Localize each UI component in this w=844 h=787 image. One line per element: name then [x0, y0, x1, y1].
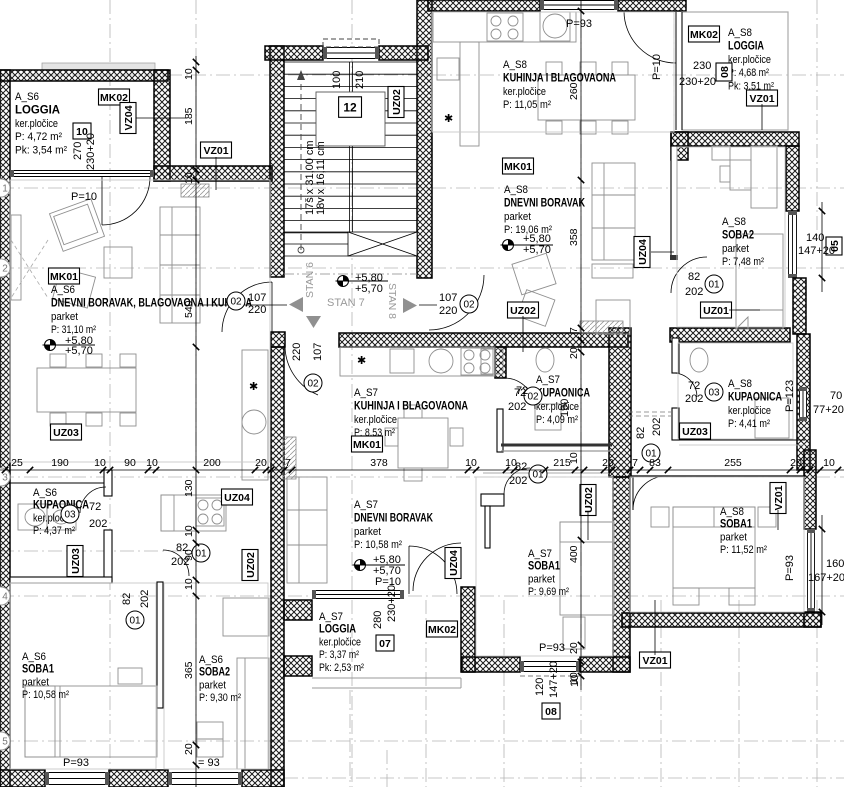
svg-text:365: 365 [183, 661, 195, 679]
svg-text:parket: parket [504, 211, 531, 223]
svg-text:90: 90 [124, 457, 136, 469]
svg-text:P: 4,41 m²: P: 4,41 m² [728, 418, 770, 430]
svg-text:2: 2 [2, 264, 8, 275]
svg-text:120: 120 [534, 678, 546, 696]
svg-text:A_S8: A_S8 [722, 216, 746, 228]
svg-text:190: 190 [51, 457, 69, 469]
svg-text:LOGGIA: LOGGIA [728, 40, 764, 52]
svg-text:202: 202 [685, 393, 703, 405]
svg-text:230+20: 230+20 [679, 76, 716, 88]
svg-text:147+20: 147+20 [798, 245, 835, 257]
svg-text:UZ04: UZ04 [637, 239, 649, 265]
svg-text:202: 202 [89, 518, 107, 530]
svg-text:SOBA1: SOBA1 [528, 561, 560, 573]
svg-text:20: 20 [568, 642, 580, 654]
svg-text:✱: ✱ [444, 113, 453, 125]
svg-text:25: 25 [11, 457, 23, 469]
svg-text:parket: parket [51, 311, 78, 323]
svg-text:202: 202 [139, 590, 151, 608]
svg-text:10: 10 [823, 457, 835, 469]
svg-text:P: 9,69 m²: P: 9,69 m² [528, 586, 569, 598]
svg-text:VZ04: VZ04 [123, 105, 135, 130]
svg-text:82: 82 [121, 593, 133, 605]
svg-text:01: 01 [129, 616, 141, 627]
svg-text:202: 202 [508, 401, 526, 413]
svg-text:4: 4 [2, 592, 8, 603]
svg-text:1: 1 [2, 184, 8, 195]
svg-text:P=93: P=93 [566, 18, 592, 30]
svg-text:A_S8: A_S8 [503, 59, 527, 71]
svg-text:01: 01 [532, 470, 544, 481]
svg-text:UZ03: UZ03 [70, 548, 82, 574]
svg-text:A_S6: A_S6 [15, 91, 39, 103]
svg-text:10: 10 [183, 578, 195, 590]
svg-text:P=93: P=93 [784, 555, 796, 581]
svg-text:KUPAONICA: KUPAONICA [536, 387, 590, 399]
svg-text:UZ02: UZ02 [245, 552, 257, 578]
svg-text:P: 9,30 m²: P: 9,30 m² [199, 692, 241, 704]
svg-text:KUPAONICA: KUPAONICA [33, 500, 89, 512]
svg-text:P: 4,68 m²: P: 4,68 m² [728, 67, 769, 79]
svg-text:UZ04: UZ04 [224, 492, 250, 504]
svg-text:10: 10 [505, 457, 517, 469]
svg-text:03: 03 [64, 510, 76, 521]
svg-text:107: 107 [248, 292, 266, 304]
svg-text:P: 11,52 m²: P: 11,52 m² [720, 544, 767, 556]
svg-text:107: 107 [312, 343, 324, 361]
svg-text:MK01: MK01 [353, 439, 381, 451]
svg-text:18v x 16,11 cm: 18v x 16,11 cm [315, 141, 327, 215]
svg-text:UZ04: UZ04 [448, 550, 460, 576]
svg-text:MK02: MK02 [690, 29, 718, 41]
svg-text:72: 72 [516, 385, 528, 397]
svg-text:200: 200 [203, 457, 221, 469]
svg-text:12: 12 [343, 100, 357, 114]
svg-text:540: 540 [183, 300, 195, 318]
svg-text:P: 3,37 m²: P: 3,37 m² [319, 649, 359, 661]
svg-text:72: 72 [688, 380, 700, 392]
svg-text:10: 10 [569, 675, 581, 687]
svg-text:UZ01: UZ01 [703, 305, 729, 317]
svg-text:A_S7: A_S7 [536, 374, 560, 386]
svg-text:02: 02 [230, 297, 242, 308]
svg-text:VZ01: VZ01 [749, 93, 774, 105]
svg-text:A_S6: A_S6 [51, 284, 75, 296]
svg-text:130: 130 [183, 479, 195, 497]
svg-text:77+20: 77+20 [813, 404, 844, 416]
svg-text:147+20: 147+20 [548, 661, 560, 698]
svg-text:A_S7: A_S7 [354, 387, 378, 399]
svg-text:210: 210 [354, 71, 366, 89]
svg-text:230: 230 [693, 60, 711, 72]
svg-text:270: 270 [72, 142, 84, 160]
svg-text:ker.pločice: ker.pločice [728, 405, 771, 417]
svg-text:230+20: 230+20 [85, 133, 97, 170]
svg-text:ker.pločice: ker.pločice [15, 118, 58, 130]
svg-text:SOBA1: SOBA1 [720, 519, 752, 531]
svg-text:P: 7,48 m²: P: 7,48 m² [722, 256, 764, 268]
svg-text:220: 220 [248, 304, 266, 316]
svg-text:SOBA2: SOBA2 [722, 229, 754, 241]
svg-text:parket: parket [720, 531, 747, 543]
svg-text:DNEVNI BORAVAK: DNEVNI BORAVAK [354, 512, 434, 524]
svg-text:202: 202 [651, 418, 663, 436]
svg-text:P: 4,37 m²: P: 4,37 m² [33, 525, 75, 537]
svg-text:190: 190 [559, 399, 571, 417]
svg-text:185: 185 [183, 107, 195, 125]
svg-text:STAN 8: STAN 8 [386, 283, 398, 319]
svg-text:220: 220 [439, 305, 457, 317]
svg-text:A_S6: A_S6 [33, 487, 57, 499]
svg-text:07: 07 [379, 638, 391, 650]
svg-text:A_S6: A_S6 [22, 651, 46, 663]
svg-text:P: 4,72 m²: P: 4,72 m² [15, 131, 62, 143]
svg-text:358: 358 [568, 228, 580, 246]
svg-text:03: 03 [708, 388, 720, 399]
svg-text:08: 08 [545, 706, 557, 718]
svg-text:70: 70 [830, 390, 842, 402]
svg-text:Pk: 2,53 m²: Pk: 2,53 m² [319, 662, 364, 674]
svg-text:UZ03: UZ03 [53, 427, 79, 439]
svg-text:P=10: P=10 [71, 191, 97, 203]
svg-text:KUHINJA I BLAGOVAONA: KUHINJA I BLAGOVAONA [354, 400, 468, 412]
svg-text:ker.pločice: ker.pločice [354, 414, 397, 426]
svg-text:STAN 6: STAN 6 [304, 262, 316, 298]
svg-text:A_S8: A_S8 [728, 378, 752, 390]
svg-text:VZ01: VZ01 [203, 145, 228, 157]
svg-text:LOGGIA: LOGGIA [15, 104, 60, 116]
svg-text:A_S8: A_S8 [728, 27, 752, 39]
svg-text:02: 02 [307, 379, 319, 390]
svg-text:160: 160 [826, 558, 844, 570]
svg-text:140: 140 [806, 232, 824, 244]
svg-text:02: 02 [463, 300, 475, 311]
svg-text:02: 02 [527, 392, 539, 403]
svg-text:83: 83 [649, 457, 661, 469]
svg-text:A_S6: A_S6 [199, 654, 223, 666]
svg-text:STAN 7: STAN 7 [327, 297, 365, 309]
svg-text:parket: parket [22, 676, 49, 688]
svg-text:280: 280 [372, 611, 384, 629]
svg-text:+5,70: +5,70 [523, 244, 551, 256]
svg-text:ker.pločice: ker.pločice [728, 54, 771, 66]
svg-text:UZ02: UZ02 [583, 487, 595, 513]
svg-text:08: 08 [719, 66, 731, 78]
svg-text:01: 01 [708, 280, 720, 291]
svg-text:378: 378 [370, 457, 388, 469]
svg-text:✱: ✱ [357, 355, 366, 367]
svg-text:MK02: MK02 [428, 624, 456, 636]
svg-text:P: 4,09 m²: P: 4,09 m² [536, 414, 578, 426]
svg-text:UZ02: UZ02 [510, 305, 536, 317]
svg-text:01: 01 [195, 549, 207, 560]
svg-text:7: 7 [568, 327, 580, 333]
svg-text:parket: parket [199, 679, 226, 691]
svg-text:Pk: 3,54 m²: Pk: 3,54 m² [15, 145, 67, 157]
svg-text:DNEVNI BORAVAK, BLAGOVAONA I K: DNEVNI BORAVAK, BLAGOVAONA I KUHINJA [51, 297, 252, 309]
svg-text:A_S7: A_S7 [528, 548, 552, 560]
svg-text:10: 10 [183, 68, 195, 80]
svg-text:P: 10,58 m²: P: 10,58 m² [354, 539, 402, 551]
svg-text:A_S8: A_S8 [720, 506, 744, 518]
svg-text:P: 11,05 m²: P: 11,05 m² [503, 99, 551, 111]
svg-text:P: 10,58 m²: P: 10,58 m² [22, 689, 69, 701]
svg-text:20: 20 [602, 457, 614, 469]
svg-text:A_S8: A_S8 [504, 184, 528, 196]
svg-text:202: 202 [685, 286, 703, 298]
svg-text:parket: parket [528, 573, 555, 585]
svg-text:400: 400 [568, 545, 580, 563]
svg-text:ker.pločice: ker.pločice [503, 86, 546, 98]
svg-text:A_S7: A_S7 [319, 611, 343, 623]
svg-text:✱: ✱ [249, 381, 258, 393]
svg-text:260: 260 [568, 82, 580, 100]
svg-text:P=123: P=123 [784, 380, 796, 412]
svg-text:KUHINJA I BLAGOVAONA: KUHINJA I BLAGOVAONA [503, 72, 616, 84]
svg-text:DNEVNI BORAVAK: DNEVNI BORAVAK [504, 197, 586, 209]
svg-text:72: 72 [89, 501, 101, 513]
svg-text:10: 10 [146, 457, 158, 469]
svg-text:P=93: P=93 [63, 757, 89, 769]
svg-text:230+20: 230+20 [386, 585, 398, 622]
svg-text:KUPAONICA: KUPAONICA [728, 391, 782, 403]
svg-text:MK01: MK01 [504, 161, 532, 173]
svg-text:100: 100 [331, 71, 343, 89]
svg-text:+5,70: +5,70 [355, 283, 383, 295]
svg-text:LOGGIA: LOGGIA [319, 624, 356, 636]
svg-text:3: 3 [2, 473, 8, 484]
svg-text:P=10: P=10 [651, 54, 663, 80]
svg-text:SOBA1: SOBA1 [22, 664, 54, 676]
svg-text:10: 10 [568, 452, 580, 464]
svg-text:VZ01: VZ01 [773, 485, 785, 510]
svg-text:+5,70: +5,70 [65, 345, 93, 357]
svg-text:parket: parket [354, 526, 381, 538]
svg-text:VZ01: VZ01 [642, 655, 667, 667]
svg-text:20: 20 [183, 743, 195, 755]
svg-text:parket: parket [722, 243, 749, 255]
svg-text:P=93: P=93 [539, 642, 565, 654]
svg-text:82: 82 [688, 271, 700, 283]
svg-text:ker.pločice: ker.pločice [536, 401, 579, 413]
svg-text:SOBA2: SOBA2 [199, 667, 230, 679]
svg-text:UZ02: UZ02 [391, 89, 403, 115]
svg-text:10: 10 [94, 457, 106, 469]
svg-text:A_S7: A_S7 [354, 499, 378, 511]
svg-text:ker.pločice: ker.pločice [319, 636, 361, 648]
svg-text:MK01: MK01 [50, 271, 78, 283]
svg-text:107: 107 [439, 292, 457, 304]
svg-text:82: 82 [635, 427, 647, 439]
svg-text:255: 255 [724, 457, 742, 469]
svg-text:167+20: 167+20 [808, 572, 844, 584]
svg-text:UZ03: UZ03 [682, 426, 708, 438]
svg-text:202: 202 [509, 475, 527, 487]
svg-text:90: 90 [183, 549, 195, 561]
svg-text:5: 5 [2, 737, 8, 748]
svg-text:220: 220 [291, 343, 303, 361]
svg-text:= 93: = 93 [198, 757, 220, 769]
